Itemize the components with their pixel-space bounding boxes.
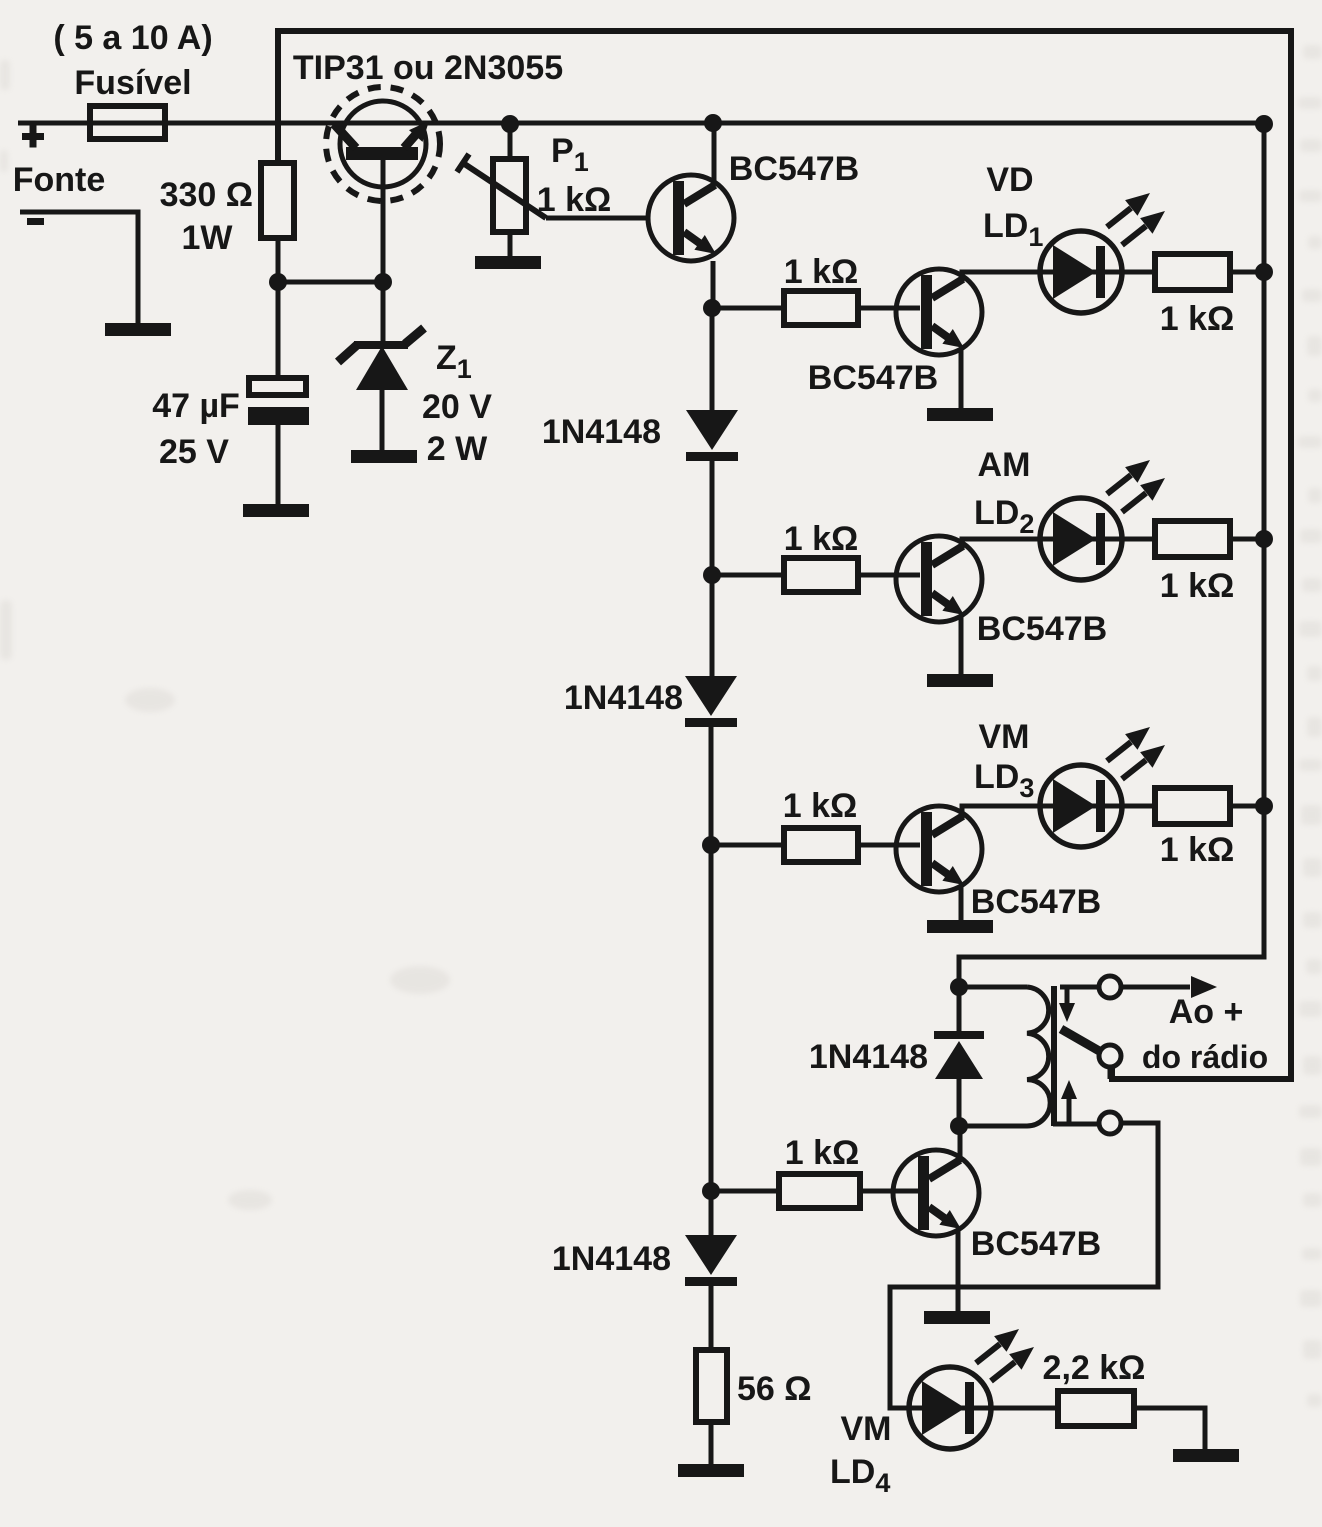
svg-text:56 Ω: 56 Ω	[737, 1370, 812, 1408]
svg-text:BC547B: BC547B	[729, 150, 859, 188]
svg-text:1 kΩ: 1 kΩ	[537, 181, 612, 219]
svg-text:VD: VD	[986, 161, 1033, 199]
svg-text:1N4148: 1N4148	[564, 679, 683, 717]
svg-text:BC547B: BC547B	[971, 1225, 1101, 1263]
svg-text:do rádio: do rádio	[1142, 1039, 1268, 1075]
svg-text:( 5 a 10 A): ( 5 a 10 A)	[53, 19, 212, 57]
svg-text:1 kΩ: 1 kΩ	[1160, 567, 1235, 605]
svg-text:Fonte: Fonte	[13, 161, 106, 199]
svg-text:VM: VM	[979, 718, 1030, 756]
svg-text:1W: 1W	[182, 219, 234, 257]
svg-text:1 kΩ: 1 kΩ	[785, 1134, 860, 1172]
svg-text:BC547B: BC547B	[977, 610, 1107, 648]
svg-text:25 V: 25 V	[159, 433, 229, 471]
svg-text:VM: VM	[841, 1410, 892, 1448]
svg-text:1 kΩ: 1 kΩ	[783, 787, 858, 825]
svg-text:1 kΩ: 1 kΩ	[784, 253, 859, 291]
svg-text:1N4148: 1N4148	[809, 1038, 928, 1076]
svg-text:Ao +: Ao +	[1169, 993, 1244, 1031]
svg-text:1N4148: 1N4148	[542, 413, 661, 451]
svg-text:BC547B: BC547B	[971, 883, 1101, 921]
svg-text:1 kΩ: 1 kΩ	[1160, 300, 1235, 338]
svg-text:2 W: 2 W	[427, 430, 488, 468]
svg-text:2,2 kΩ: 2,2 kΩ	[1043, 1349, 1146, 1387]
svg-text:1 kΩ: 1 kΩ	[784, 520, 859, 558]
svg-text:Fusível: Fusível	[74, 64, 191, 102]
svg-text:1 kΩ: 1 kΩ	[1160, 831, 1235, 869]
svg-text:TIP31 ou 2N3055: TIP31 ou 2N3055	[293, 49, 563, 87]
svg-text:330 Ω: 330 Ω	[160, 176, 253, 214]
svg-text:AM: AM	[978, 446, 1031, 484]
svg-text:47 µF: 47 µF	[152, 387, 240, 425]
svg-text:BC547B: BC547B	[808, 359, 938, 397]
svg-text:1N4148: 1N4148	[552, 1240, 671, 1278]
svg-text:20 V: 20 V	[422, 388, 492, 426]
